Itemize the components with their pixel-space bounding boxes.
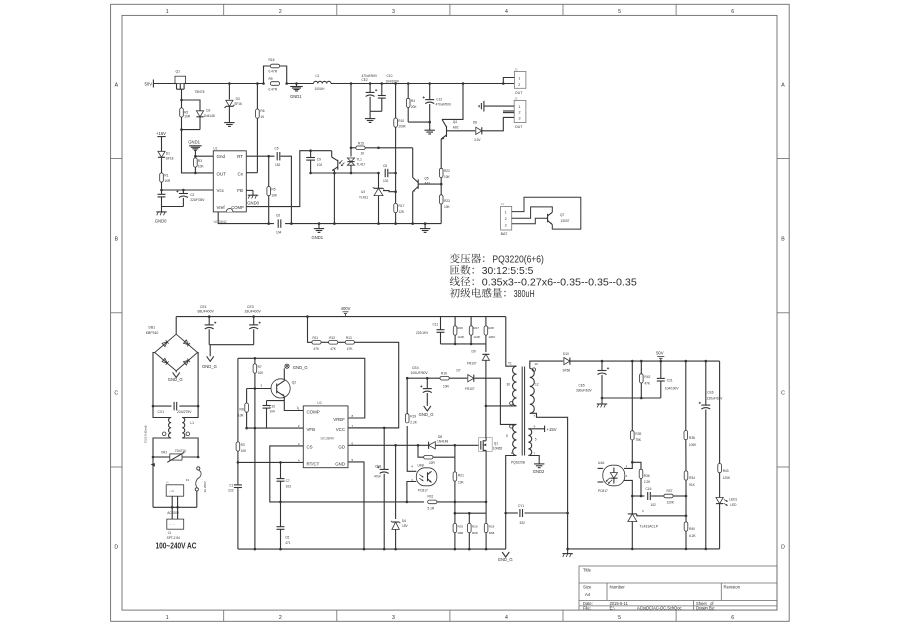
svg-text:0.35x3--0.27x6--0.35--0.35--0.: 0.35x3--0.27x6--0.35--0.35--0.35 (482, 277, 637, 288)
svg-text:47K: 47K (644, 382, 651, 386)
inductor L1 phase dots (162, 432, 189, 436)
junction gnd rail CE6 (705, 548, 708, 551)
junction Q2 base node (254, 387, 257, 390)
label D10 SF56 (563, 352, 571, 372)
junction clamp2 (470, 343, 473, 346)
label pin 3 TL431 (642, 509, 644, 513)
junction sense bus left (454, 512, 457, 515)
label R36 2.2K (644, 474, 651, 484)
svg-text:R13: R13 (346, 336, 352, 340)
label R7 10K (258, 365, 265, 375)
svg-text:D2: D2 (206, 109, 210, 113)
pin number 1 U4A (626, 464, 628, 468)
resistor R39 75K (631, 361, 635, 462)
label UC384X (321, 436, 335, 440)
svg-text:C11: C11 (433, 322, 439, 326)
label U3 TL431 (359, 190, 368, 200)
varistor VR1 7D471K (167, 452, 198, 462)
svg-text:R16: R16 (441, 372, 447, 376)
svg-text:GND_G: GND_G (202, 364, 217, 369)
svg-text:~ IN: ~ IN (169, 489, 174, 493)
svg-text:104/100V: 104/100V (386, 79, 401, 83)
svg-text:2.2K: 2.2K (410, 421, 417, 425)
wire TL417 riser (350, 84, 352, 157)
wire sense bus (455, 512, 486, 514)
wire U2 GND to rail (348, 462, 364, 549)
junction CX1 right (197, 405, 200, 408)
wire L1 left bottom (153, 438, 171, 457)
capacitor C2 22UF/35V (176, 190, 188, 207)
wire Q2 emitter down (284, 396, 303, 410)
wire Q1 gate drop (181, 89, 183, 100)
pin number 3 U4B (411, 478, 413, 482)
svg-text:104: 104 (276, 231, 282, 235)
ground GND_G caps (202, 345, 217, 369)
pin number 4 U4B (411, 465, 413, 469)
capacitor C10 104/100V (378, 84, 386, 112)
wire R37 to divider (673, 495, 686, 497)
svg-text:47uF: 47uF (374, 475, 381, 479)
svg-text:Vref: Vref (217, 205, 226, 210)
junction Q1 gate node (180, 99, 183, 102)
svg-text:10K: 10K (241, 449, 248, 453)
label R21 10K (458, 473, 465, 484)
label pin 7s (534, 414, 536, 418)
svg-text:R12: R12 (329, 336, 335, 340)
label R17 12K (399, 204, 406, 214)
svg-text:L3: L3 (316, 74, 320, 78)
label R23 10K (444, 199, 451, 209)
transistor Q5 A42 (413, 178, 419, 192)
svg-text:R42: R42 (644, 375, 650, 379)
svg-text:Q7: Q7 (560, 213, 564, 217)
svg-text:10K: 10K (238, 414, 245, 418)
pin number 1 COMP (297, 406, 299, 410)
wire 15V winding top (528, 428, 544, 430)
wire 50V bus segment D (331, 83, 514, 85)
junction R3 to OUT row (194, 172, 197, 175)
label Q1 (176, 70, 181, 74)
junction GD bypass left (417, 444, 420, 447)
junction out R42 (640, 360, 643, 363)
junction GD D4 (394, 444, 397, 447)
zener D4 15V (391, 445, 400, 549)
transformer T1 primary phase dot (510, 402, 513, 405)
svg-text:CE6: CE6 (707, 390, 713, 394)
svg-text:Size: Size (583, 585, 592, 590)
wire live drop (152, 457, 154, 507)
junction rail R11 riser (306, 315, 309, 318)
svg-text:+15V: +15V (547, 427, 557, 432)
svg-text:10R: 10R (184, 114, 191, 118)
wire clamp bottom (441, 343, 486, 345)
label Q4 A92 (453, 120, 459, 129)
wire CE5 bottom row (602, 397, 661, 399)
junction gnd rail TL431 (631, 548, 634, 551)
capacitor CY1 332 (520, 509, 523, 517)
svg-text:0.47R: 0.47R (269, 70, 278, 74)
svg-text:GND1: GND1 (312, 235, 324, 240)
junction bus at D3 (228, 82, 231, 85)
svg-text:R17: R17 (399, 204, 405, 208)
wire VR1 row left (153, 456, 168, 458)
transistor Q2 (271, 379, 290, 398)
svg-text:AC220V: AC220V (167, 511, 180, 515)
resistor R27 120K (469, 317, 473, 344)
label L3 100uH (315, 74, 326, 91)
svg-text:H: H (166, 481, 168, 485)
ground GND1 below bus (290, 84, 303, 92)
svg-text:D: D (114, 545, 118, 551)
label R34 91K (689, 476, 696, 487)
svg-text:CE1: CE1 (200, 305, 207, 309)
fuse F1 3A250V (195, 467, 201, 508)
capacitor CT 222 (234, 462, 242, 549)
capacitor C12 470uF/50V (423, 84, 435, 123)
label R15 1K (358, 142, 365, 156)
ground earth below D3 (224, 120, 234, 126)
optocoupler U4A PC817 body (603, 465, 625, 486)
label R43 120K (723, 469, 731, 480)
label R29 R68 (489, 524, 495, 535)
svg-text:33UF400V: 33UF400V (245, 309, 262, 313)
label C9 102 (317, 158, 323, 167)
label C10 104 (269, 404, 275, 413)
svg-text:2.2K: 2.2K (644, 480, 651, 484)
resistor R10 100K (394, 84, 398, 224)
svg-text:U4A: U4A (598, 461, 605, 465)
svg-text:R36: R36 (644, 474, 650, 478)
svg-text:F1: F1 (186, 478, 190, 482)
junction bus C10 (381, 82, 384, 85)
ground earth secondary (562, 549, 572, 557)
capacitor C10b 104 (263, 401, 271, 429)
junction C12 bottom (428, 121, 431, 124)
svg-text:3: 3 (392, 9, 395, 15)
wire L1 right top (182, 406, 198, 417)
wire RT row (246, 155, 274, 157)
label R16 10R (441, 372, 450, 389)
svg-text:100K: 100K (689, 443, 697, 447)
svg-text:1: 1 (505, 211, 507, 215)
resistor R33 R68 (453, 513, 457, 549)
svg-text:U3: U3 (361, 190, 365, 194)
wire bypass right riser (454, 445, 456, 457)
svg-text:CUS 8 (0md): CUS 8 (0md) (144, 425, 148, 443)
svg-text:2: 2 (279, 615, 282, 621)
label 22R (429, 461, 436, 465)
svg-text:COMP: COMP (307, 410, 320, 415)
label pin 9 (534, 424, 536, 428)
resistor R2 10R (180, 108, 184, 117)
shunt regulator U3 TL431 (373, 173, 384, 224)
wire vfb drop to rail (254, 428, 256, 549)
ground GND0 below C1 (156, 207, 166, 216)
ground earth CE5 (597, 398, 607, 407)
label turns 12 (535, 382, 539, 386)
label R40 6.2K (689, 527, 696, 538)
svg-text:47K: 47K (347, 347, 354, 351)
label C1 222 (228, 484, 234, 493)
ground GND_G primary rail (498, 552, 513, 562)
svg-text:5: 5 (618, 615, 621, 621)
transformer T1 primary winding (513, 366, 517, 406)
wire J4 pin1 loop (512, 197, 581, 229)
svg-text:222: 222 (228, 489, 234, 493)
svg-text:R22: R22 (444, 169, 450, 173)
wire D7 to aux top (474, 378, 516, 424)
svg-text:~ ~: ~ ~ (170, 523, 175, 527)
wire 15V winding bottom (528, 456, 539, 462)
junction out R38 (685, 360, 688, 363)
junction loop bottom (180, 128, 183, 131)
label C21 104/100V (665, 378, 680, 390)
label D2 1N4148 (204, 109, 215, 118)
resistor R43 120K (718, 464, 722, 494)
label R42 47K (644, 375, 651, 385)
label C11 222/1KV (416, 322, 438, 335)
svg-text:R68: R68 (472, 531, 478, 535)
junction ref divider (685, 515, 688, 518)
svg-text:120K: 120K (488, 335, 495, 339)
svg-text:SF56: SF56 (563, 368, 571, 372)
junction TL417 bottom (350, 172, 353, 175)
wire bypass right (433, 456, 455, 458)
ground GND_G bridge (168, 371, 183, 382)
wire R2 branch (181, 100, 183, 108)
IC U1 UC3842 body (213, 151, 246, 212)
svg-text:BAT: BAT (501, 232, 509, 236)
svg-text:C21: C21 (667, 378, 673, 382)
label R33 R68 (458, 524, 464, 535)
label R1 10R (164, 173, 171, 183)
svg-text:R3: R3 (241, 443, 245, 447)
svg-text:R33: R33 (458, 524, 464, 528)
junction rail Q5 (411, 222, 414, 225)
svg-text:380uH: 380uH (514, 289, 535, 300)
wire Gnd pin (195, 155, 213, 157)
wire J3 pin2 stub a (503, 110, 514, 112)
svg-text:TL417: TL417 (356, 162, 365, 166)
svg-text:RT: RT (237, 154, 243, 159)
wire Q4 base row (447, 130, 476, 132)
svg-text:D7: D7 (457, 368, 461, 372)
label C8 102 (383, 164, 389, 183)
svg-text:C5: C5 (275, 146, 279, 150)
svg-text:R68: R68 (458, 531, 464, 535)
label TL1 TL417 (356, 158, 365, 167)
filter box K1 (166, 481, 184, 497)
wire CX1 row (153, 405, 172, 407)
transformer T1 core (522, 367, 524, 456)
junction bus R4 (407, 82, 410, 85)
junction VR1 left (152, 456, 155, 459)
diode D8 1N4148 (425, 442, 452, 449)
svg-text:R11: R11 (313, 336, 319, 340)
svg-text:GND_G: GND_G (419, 412, 434, 417)
svg-text:GND1: GND1 (290, 94, 302, 99)
label GND0 (155, 219, 167, 224)
junction inlet a (171, 506, 174, 509)
label R37 120K (667, 489, 675, 504)
wire Q2 base row (247, 388, 277, 390)
ground earth below C12 (425, 122, 435, 134)
svg-text:FR107: FR107 (465, 387, 475, 391)
port +15V secondary (545, 426, 557, 433)
label Q2 (292, 380, 296, 384)
label CE4 100UF/50V (411, 366, 429, 375)
svg-text:VCC: VCC (336, 427, 345, 432)
wire CE1-CE3 bottom (209, 344, 254, 346)
svg-text:CE3: CE3 (247, 305, 254, 309)
wire inlet pin b (177, 496, 179, 519)
svg-text:U2: U2 (317, 401, 321, 405)
svg-text:VFB: VFB (307, 427, 316, 432)
svg-text:J1: J1 (168, 531, 172, 535)
resistor R15 1K (356, 146, 374, 150)
capacitor CE4 100UF/50V (420, 378, 432, 406)
svg-text:C6: C6 (276, 214, 280, 218)
svg-text:3: 3 (519, 116, 521, 120)
svg-text:Q5: Q5 (424, 176, 428, 180)
zener D6 3.3V (476, 127, 482, 134)
capacitor C5 152 (277, 152, 280, 160)
svg-text:TL431ACLP: TL431ACLP (640, 525, 659, 529)
junction CY1 aux (504, 512, 507, 515)
bridge rectifier DB1 KBP310 (155, 334, 198, 371)
wire R11-R12 (321, 341, 329, 343)
label D7 FR107 (457, 368, 475, 391)
label D1 SF18 (166, 152, 174, 161)
junction CS C7 (279, 501, 282, 504)
svg-text:400V: 400V (341, 306, 351, 311)
svg-text:1N4148: 1N4148 (437, 439, 448, 443)
svg-text:50V: 50V (145, 82, 153, 87)
junction VFB left (245, 427, 248, 430)
label R38 100K (689, 436, 697, 447)
svg-text:R7: R7 (258, 365, 262, 369)
optocoupler U4B PC817 body (416, 468, 437, 486)
svg-text:120K: 120K (473, 335, 480, 339)
svg-text:5: 5 (535, 438, 537, 442)
wire C8 to R10 riser (389, 172, 396, 174)
arrow marker live (151, 463, 155, 467)
resistor R19 2.2K (405, 378, 409, 423)
junction Gnd pin node (194, 155, 197, 158)
svg-text:15V: 15V (402, 524, 409, 528)
svg-text:R39: R39 (635, 432, 641, 436)
svg-text:CS: CS (307, 444, 313, 449)
svg-text:75K: 75K (635, 438, 642, 442)
svg-text:A: A (115, 83, 119, 89)
svg-text:UC384X: UC384X (321, 436, 335, 440)
svg-text:5: 5 (506, 434, 508, 438)
svg-text:102: 102 (383, 179, 389, 183)
wire CE2-C10 bottom (370, 110, 382, 112)
resistor R30 22R (424, 455, 433, 459)
svg-text:471: 471 (285, 541, 291, 545)
wire R13 to VCC corner (348, 342, 399, 428)
label C6 471 (285, 536, 291, 545)
wire U4A pin2 drop (624, 480, 632, 496)
wire tap to R36 (632, 462, 641, 469)
junction bus Q4 branch (462, 82, 465, 85)
junction prail C6b (279, 548, 282, 551)
svg-text:12: 12 (535, 382, 539, 386)
optocoupler U2 phototransistor (332, 151, 345, 173)
svg-text:100UH: 100UH (315, 87, 326, 91)
svg-text:1: 1 (166, 615, 169, 621)
resistor R9 0.47R (270, 82, 279, 86)
wire inlet pin a (171, 496, 173, 519)
wire C10b top link (267, 400, 285, 402)
junction CE4 top (426, 377, 429, 380)
svg-text:R3: R3 (198, 159, 202, 163)
svg-text:SPT-2.54: SPT-2.54 (167, 536, 181, 540)
junction rail U3 (377, 222, 380, 225)
junction VFB node (254, 427, 257, 430)
svg-text:R28: R28 (488, 326, 494, 330)
label 3.3V (474, 138, 481, 142)
svg-text:4: 4 (505, 615, 508, 621)
resistor R11 47K (312, 341, 321, 345)
svg-text:C7: C7 (286, 479, 290, 483)
label GND1 CE2 (0, 0, 1, 1)
svg-text:SF18: SF18 (166, 156, 174, 160)
wire R2-D2 loop (182, 100, 201, 109)
junction bus C12 (428, 82, 431, 85)
resistor R34 91K (684, 471, 688, 496)
label R12 47K (329, 336, 337, 351)
wire secondary bottom lead (530, 413, 568, 549)
label C12 (436, 98, 452, 107)
svg-text:R34: R34 (689, 476, 695, 480)
MOSFET Q1 10N65 body (479, 438, 493, 452)
label R31 5.1R (428, 494, 435, 510)
svg-text:22UF/35V: 22UF/35V (190, 198, 205, 202)
svg-text:104: 104 (269, 409, 275, 413)
ground GND0 at FB (248, 190, 258, 198)
wire divider mid to ref (685, 496, 687, 516)
label Q5 A42 (424, 176, 430, 185)
svg-text:CE2: CE2 (362, 78, 368, 82)
border zone tick marks (111, 4, 790, 621)
junction bus R10 riser (394, 82, 397, 85)
capacitor CE5 330uF/63V (598, 361, 610, 398)
svg-text:C1: C1 (229, 484, 233, 488)
svg-text:120K: 120K (667, 501, 675, 505)
svg-text:D4: D4 (402, 519, 406, 523)
svg-text:Title: Title (583, 568, 592, 573)
svg-text:FB: FB (237, 188, 243, 193)
wire top rail (285, 223, 441, 225)
svg-text:PQ3220(6+6): PQ3220(6+6) (492, 254, 544, 265)
svg-text:1: 1 (519, 105, 521, 109)
svg-text:R10: R10 (398, 119, 404, 123)
wire J2 pin1 (503, 78, 514, 84)
junction rail C5 riser (290, 222, 293, 225)
label U2 (317, 401, 321, 405)
svg-text:Q4: Q4 (453, 120, 457, 124)
svg-text:SF16: SF16 (234, 102, 242, 106)
junction shunt left (262, 82, 265, 85)
svg-text:GD: GD (338, 444, 345, 449)
svg-text:30:12:5:5:5: 30:12:5:5:5 (482, 266, 534, 277)
resistor R23 10K (439, 195, 443, 224)
junction ref node (394, 190, 397, 193)
junction prail CE8 (383, 548, 386, 551)
label PQ3220B (511, 460, 525, 464)
